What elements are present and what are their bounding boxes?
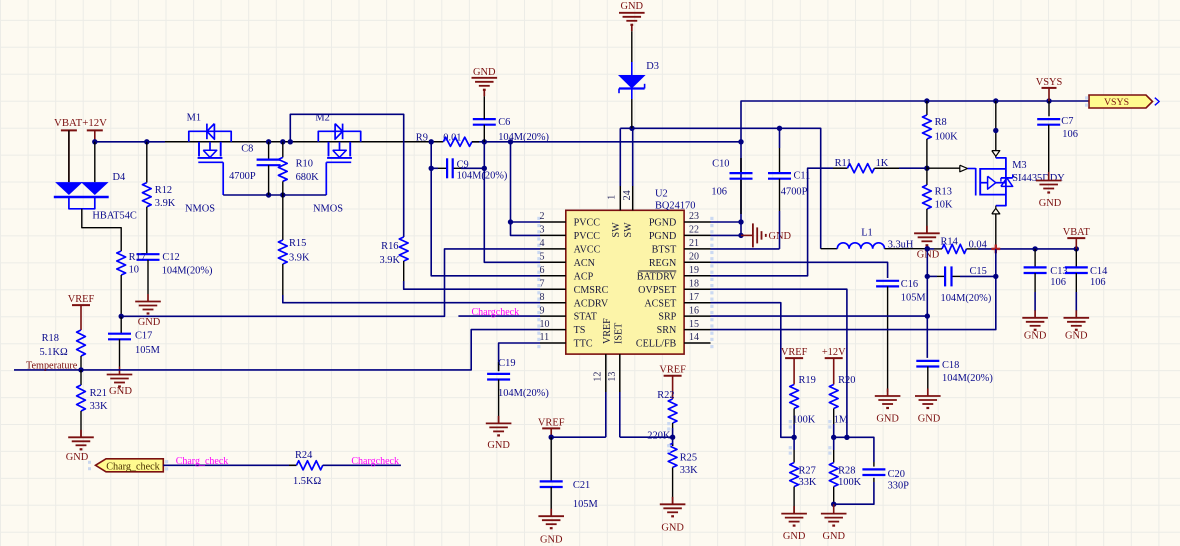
junction VREF / C21: [549, 435, 554, 440]
svg-text:C20: C20: [888, 469, 905, 480]
junction R28 / C20: [831, 502, 836, 507]
svg-text:1: 1: [607, 195, 618, 200]
svg-text:TS: TS: [574, 325, 586, 336]
svg-text:C7: C7: [1061, 116, 1073, 127]
wire ISET pin13 to divider: [620, 436, 673, 438]
capacitor C17: [108, 316, 131, 366]
label R9 0.01: [416, 132, 462, 143]
svg-text:C8: C8: [241, 144, 253, 155]
resistor R15 + wire to ACDRV: [278, 195, 540, 303]
label M3: [1012, 160, 1026, 171]
power +12V (R20): [822, 347, 846, 384]
svg-text:104M(20%): 104M(20%): [942, 373, 993, 384]
transistor M1 NMOS: [189, 124, 231, 195]
svg-text:15: 15: [689, 319, 699, 330]
svg-text:R21: R21: [90, 388, 107, 399]
svg-text:M3: M3: [1012, 160, 1026, 171]
diode D4 HBAT54C: [54, 130, 109, 208]
power VREF (R19): [781, 347, 808, 384]
pin name BTST: [652, 245, 677, 256]
svg-text:NMOS: NMOS: [313, 204, 343, 215]
svg-text:33K: 33K: [680, 465, 698, 476]
pin name TS: [574, 325, 586, 336]
svg-text:R28: R28: [838, 465, 855, 476]
label R20 1M: [834, 375, 856, 426]
junction SW / D3 / pin24: [629, 126, 634, 131]
label R16 3.9K: [380, 241, 401, 266]
svg-text:1.5KΩ: 1.5KΩ: [293, 476, 321, 487]
svg-text:24: 24: [622, 190, 633, 200]
svg-text:GND: GND: [876, 413, 899, 424]
pin name REGN: [649, 258, 677, 269]
svg-text:R25: R25: [680, 452, 697, 463]
svg-text:R17: R17: [129, 252, 146, 263]
svg-text:GND: GND: [540, 535, 563, 546]
svg-text:CELL/FB: CELL/FB: [636, 339, 677, 350]
junction C10 / PGND23: [738, 219, 743, 224]
svg-text:R14: R14: [941, 237, 959, 248]
capacitor C12: [137, 254, 160, 260]
pin 12 VREF: [593, 354, 606, 437]
svg-text:R8: R8: [935, 117, 947, 128]
svg-text:C19: C19: [498, 358, 515, 369]
label R24 1.5Kohm: [293, 450, 321, 487]
port VSYS: [1085, 95, 1159, 108]
resistor R24: [289, 461, 330, 470]
pin 13 ISET: [607, 354, 620, 437]
pin name ACP: [574, 271, 594, 282]
pin name BATDRV: [637, 271, 677, 282]
svg-text:GND: GND: [621, 1, 644, 12]
value HBAT54C: [92, 211, 137, 222]
junction SW / C11: [777, 126, 782, 131]
wire BATDRV to R11: [711, 168, 848, 276]
svg-text:VSYS: VSYS: [1104, 97, 1129, 108]
svg-text:GND: GND: [138, 317, 161, 328]
net label Temperature: [26, 360, 78, 371]
svg-text:100K: 100K: [935, 132, 959, 143]
svg-text:GND: GND: [473, 67, 496, 78]
svg-text:106: 106: [711, 187, 727, 198]
pin 22 PGND: [684, 225, 713, 241]
net label Charg_check: [176, 456, 229, 467]
svg-text:4: 4: [540, 238, 545, 249]
svg-text:GND: GND: [783, 531, 806, 542]
capacitor C9: [447, 158, 453, 178]
pin 10 TS: [537, 319, 566, 335]
resistor R20: [828, 385, 838, 438]
svg-text:GND: GND: [1024, 331, 1047, 342]
wire Temperature net: [14, 330, 540, 370]
pin 20 REGN: [684, 252, 713, 268]
svg-text:TTC: TTC: [574, 339, 593, 350]
svg-text:PVCC: PVCC: [574, 231, 601, 242]
svg-text:R19: R19: [799, 375, 816, 386]
ground above C6: [472, 67, 498, 119]
pin 23 PGND: [684, 211, 713, 227]
label C6 104M(20%): [498, 117, 549, 143]
label R12 3.9K: [155, 185, 176, 209]
resistor R10: [278, 142, 287, 195]
label C21 105M: [573, 480, 598, 510]
svg-text:3.9K: 3.9K: [380, 255, 401, 266]
pin name SRN: [657, 325, 677, 336]
svg-text:Charg_check: Charg_check: [106, 462, 160, 473]
label R13 10K: [935, 186, 953, 210]
svg-text:104M(20%): 104M(20%): [941, 293, 992, 304]
power bar VBAT+12V left stem: [61, 130, 77, 182]
svg-text:U2: U2: [655, 188, 668, 199]
wire rail to R16 (CMSRC): [290, 114, 403, 237]
svg-text:105M: 105M: [135, 345, 160, 356]
capacitor C10: [730, 158, 753, 214]
label R18 5.1Kohm: [39, 333, 67, 358]
resistor R27: [789, 437, 799, 513]
transistor M3 SI4435DDY PMOS: [976, 101, 1013, 249]
junction rail / R12: [144, 139, 149, 144]
inductor L1: [821, 243, 928, 249]
pin 3 PVCC: [537, 225, 566, 241]
wire C6 riser to ACN: [484, 142, 540, 262]
label L1 3.3uH: [861, 227, 914, 250]
junction VSYS / R8: [924, 98, 929, 103]
power VSYS: [1036, 77, 1063, 101]
label R21 33K: [90, 388, 108, 412]
pin 5 ACN: [537, 252, 566, 268]
capacitor C13: [1024, 249, 1047, 311]
wire Chargcheck stub to STAT: [458, 315, 540, 317]
power VREF (C21): [538, 417, 565, 437]
wire VSYS rail y=101: [927, 100, 1089, 102]
wire R24 to Chargcheck stub: [323, 464, 401, 466]
svg-text:C17: C17: [135, 330, 152, 341]
svg-text:VBAT: VBAT: [1063, 227, 1091, 238]
capacitor C15: [945, 266, 951, 286]
pin 8 ACDRV: [537, 292, 566, 308]
pin name PVCC: [574, 231, 601, 242]
pin name ACDRV: [574, 298, 609, 309]
net label VBAT+12V: [54, 117, 107, 129]
wire M3 gate: [927, 165, 976, 172]
pin 2 PVCC: [537, 211, 566, 227]
pin name PVCC: [574, 218, 601, 229]
label R28 100K: [838, 465, 862, 487]
svg-text:VSYS: VSYS: [1036, 77, 1063, 88]
label R19 100K: [792, 375, 816, 426]
svg-text:OVPSET: OVPSET: [638, 285, 676, 296]
ground below R25: [660, 497, 686, 534]
svg-text:SW: SW: [623, 222, 634, 238]
junction R22/R25/ISET: [670, 435, 675, 440]
label C18 104M(20%): [942, 360, 993, 384]
power bar VBAT+12V right stem: [87, 130, 103, 141]
junction rail / R10: [280, 139, 285, 144]
svg-text:R15: R15: [289, 238, 306, 249]
power VBAT: [1063, 227, 1091, 249]
resistor R16 + wire to CMSRC: [399, 237, 540, 289]
wire OVPSET node to C20: [834, 437, 874, 466]
net label Chargcheck (STAT): [472, 307, 520, 318]
wire C9 row: [431, 167, 484, 169]
svg-text:3.3uH: 3.3uH: [888, 240, 914, 251]
svg-text:D3: D3: [646, 61, 659, 72]
svg-text:+12V: +12V: [822, 347, 846, 358]
wire main VBAT rail y=142: [95, 141, 741, 143]
label C15 104M(20%): [941, 266, 992, 304]
svg-text:ACN: ACN: [574, 258, 596, 269]
pin name ACSET: [644, 298, 676, 309]
label C13 106: [1050, 266, 1067, 288]
junction rail / ACN-C9 riser: [429, 139, 434, 144]
svg-text:5.1KΩ: 5.1KΩ: [39, 347, 67, 358]
svg-text:17: 17: [689, 292, 699, 303]
svg-text:3: 3: [540, 225, 545, 236]
label C7 106: [1061, 116, 1078, 140]
svg-text:HBAT54C: HBAT54C: [92, 211, 137, 222]
svg-text:R20: R20: [838, 375, 855, 386]
pin name CELL/FB: [636, 339, 677, 350]
pin name STAT: [574, 312, 597, 323]
svg-text:104M(20%): 104M(20%): [162, 266, 213, 277]
ground below C21: [538, 509, 564, 546]
svg-text:11: 11: [540, 332, 550, 343]
svg-text:C10: C10: [712, 159, 729, 170]
svg-text:C12: C12: [162, 252, 179, 263]
svg-text:10: 10: [129, 264, 139, 275]
label R27 33K: [799, 465, 817, 487]
pin 18 OVPSET: [684, 278, 713, 294]
svg-text:12: 12: [593, 372, 604, 382]
capacitor C8: [257, 142, 281, 195]
svg-text:ACSET: ACSET: [644, 298, 676, 309]
svg-text:R13: R13: [935, 186, 952, 197]
wire M1/M2 gate bus y=195: [223, 194, 326, 196]
junction rail / PVCC riser: [508, 139, 513, 144]
svg-text:106: 106: [1050, 277, 1066, 288]
svg-text:Chargcheck: Chargcheck: [472, 307, 520, 318]
net label Chargcheck right: [351, 456, 399, 467]
svg-text:C21: C21: [573, 480, 590, 491]
svg-text:R9: R9: [416, 132, 428, 143]
pin name OVPSET: [638, 285, 676, 296]
resistor R21: [77, 370, 86, 437]
svg-text:105M: 105M: [573, 499, 598, 510]
svg-text:REGN: REGN: [649, 258, 677, 269]
ground right of pin22: [741, 223, 792, 247]
junction OVPSET: [844, 435, 849, 440]
svg-text:SI4435DDY: SI4435DDY: [1012, 173, 1065, 184]
svg-text:10: 10: [540, 319, 550, 330]
wire C10 riser / VSYS corner: [741, 101, 927, 235]
svg-text:20: 20: [689, 252, 699, 263]
junction R20/R28: [831, 435, 836, 440]
junction VBAT rail / D4: [92, 139, 97, 144]
wire D4 cathode to R17: [82, 209, 121, 251]
svg-text:14: 14: [689, 332, 699, 343]
resistor R14: [942, 244, 966, 253]
wire R14 to VBAT: [927, 248, 1076, 250]
svg-text:SRP: SRP: [658, 312, 676, 323]
ground below C14: [1064, 310, 1090, 341]
svg-text:5: 5: [540, 252, 545, 263]
junction PVCC pin2: [508, 219, 513, 224]
label C17 105M: [135, 330, 160, 356]
svg-text:PGND: PGND: [649, 231, 676, 242]
pin names SW SW: [611, 222, 634, 238]
diode D3: [618, 62, 646, 128]
pin name PGND: [649, 231, 676, 242]
svg-text:104M(20%): 104M(20%): [498, 388, 549, 399]
svg-text:GND: GND: [1039, 198, 1062, 209]
label R10 680K: [296, 159, 320, 183]
capacitor C20: [862, 469, 885, 475]
junction rail / C8: [266, 139, 271, 144]
svg-text:SW: SW: [611, 222, 622, 238]
svg-text:100K: 100K: [838, 477, 862, 488]
ground below C13: [1022, 310, 1048, 341]
svg-text:R22: R22: [657, 390, 674, 401]
svg-text:23: 23: [689, 211, 699, 222]
svg-text:GND: GND: [917, 250, 940, 261]
svg-text:19: 19: [689, 265, 699, 276]
pin name CMSRC: [574, 285, 609, 296]
svg-text:GND: GND: [822, 531, 845, 542]
svg-text:R27: R27: [799, 465, 816, 476]
pin names VREF ISET: [602, 318, 624, 344]
ground below C7: [1036, 172, 1062, 209]
junction R18/R21/Temperature: [78, 367, 83, 372]
svg-text:8: 8: [540, 292, 545, 303]
capacitor C14: [1065, 249, 1088, 311]
label C11 4700P: [781, 171, 811, 198]
ground below C17: [107, 367, 133, 387]
junction R19/R27/ACSET: [791, 435, 796, 440]
capacitor C6: [473, 119, 496, 142]
svg-text:CMSRC: CMSRC: [574, 285, 609, 296]
pin 1 SW: [607, 128, 621, 210]
junction R10 bottom / R15 top: [280, 192, 285, 197]
svg-text:16: 16: [689, 305, 699, 316]
svg-text:330P: 330P: [888, 481, 910, 492]
label R11 1K: [835, 158, 889, 169]
svg-text:STAT: STAT: [574, 312, 597, 323]
svg-text:C6: C6: [498, 117, 510, 128]
pin 14 CELL/FB: [684, 332, 713, 348]
pin 4 AVCC: [537, 238, 566, 254]
svg-text:220K: 220K: [647, 431, 671, 442]
wire TTC to C19: [499, 343, 540, 371]
label C10 106: [711, 159, 729, 198]
value SI4435DDY: [1012, 173, 1065, 184]
svg-text:C15: C15: [970, 266, 987, 277]
resistor R22: [667, 399, 677, 437]
ground below R13: [914, 226, 940, 261]
svg-text:BATDRV: BATDRV: [637, 271, 677, 282]
svg-text:106: 106: [1090, 277, 1106, 288]
resistor R18: [77, 330, 86, 370]
svg-text:13: 13: [607, 372, 618, 382]
svg-text:Temperature: Temperature: [26, 360, 78, 371]
svg-text:18: 18: [689, 278, 699, 289]
ground below R28: [821, 504, 847, 542]
pin 15 SRN: [684, 319, 713, 335]
IC U2 BQ24170: [566, 210, 684, 354]
resistor R17: [117, 251, 126, 316]
junction R17 / AVCC wire: [119, 314, 124, 319]
pin name ACN: [574, 258, 596, 269]
resistor R12: [142, 142, 151, 254]
resistor R19: [789, 385, 799, 438]
power VREF (R18): [68, 294, 95, 330]
junction C14 / VBAT: [1074, 246, 1079, 251]
svg-text:BQ24170: BQ24170: [655, 200, 695, 211]
svg-text:GND: GND: [487, 440, 510, 451]
capacitor C21: [540, 437, 563, 516]
label R22 220K: [647, 390, 674, 442]
junction SRP wire: [925, 313, 930, 318]
label R8 100K: [935, 117, 959, 142]
pin 6 ACP: [537, 265, 566, 281]
label C16 105M: [901, 279, 926, 303]
svg-text:Charg_check: Charg_check: [176, 456, 229, 467]
svg-text:VREF: VREF: [602, 318, 613, 344]
wire AVCC net (R17 to pin4): [121, 249, 540, 316]
svg-text:680K: 680K: [296, 172, 320, 183]
junction rail / CMSRC riser: [288, 139, 293, 144]
wire R11 to M3 gate junction: [874, 167, 927, 169]
label C8 4700P: [229, 144, 256, 182]
svg-text:10K: 10K: [935, 200, 953, 211]
svg-text:VREF: VREF: [68, 294, 95, 305]
ground above D3: [619, 1, 645, 62]
svg-text:C14: C14: [1090, 266, 1108, 277]
wire C20 bottom to R28: [834, 478, 874, 504]
svg-text:R18: R18: [42, 333, 59, 344]
capacitor C18: [916, 361, 939, 392]
junction R8/R13/M3 gate: [924, 166, 929, 171]
svg-text:4700P: 4700P: [781, 187, 808, 198]
pin 24 SW: [622, 128, 633, 210]
port Charg_check: [88, 459, 168, 473]
capacitor C16: [876, 281, 899, 392]
pin 17 ACSET: [684, 292, 713, 308]
wire SRN riser: [711, 249, 996, 330]
label D3: [646, 61, 659, 72]
svg-text:ACP: ACP: [574, 271, 594, 282]
svg-text:104M(20%): 104M(20%): [457, 171, 508, 182]
capacitor C7: [1037, 101, 1060, 172]
junction VSYS / C7: [1046, 98, 1051, 103]
label C19 104M(20%): [498, 358, 549, 399]
value NMOS M1: [185, 204, 215, 215]
svg-text:C16: C16: [901, 279, 918, 290]
junction L1 / R14 / SRP riser: [925, 246, 930, 251]
label C20 330P: [888, 469, 910, 492]
svg-text:R10: R10: [296, 159, 313, 170]
pin name SRP: [658, 312, 676, 323]
svg-text:1M: 1M: [834, 414, 848, 425]
label M1: [187, 112, 201, 123]
junction M3 drain pin: [993, 128, 998, 133]
junction PGND22 wire: [738, 233, 743, 238]
junction C15 right: [993, 274, 998, 279]
label R14 0.04: [941, 237, 988, 251]
pin name AVCC: [574, 245, 601, 256]
svg-text:VREF: VREF: [781, 347, 808, 358]
wire SRP riser: [926, 249, 928, 358]
svg-text:AVCC: AVCC: [574, 245, 601, 256]
svg-text:105M: 105M: [901, 292, 926, 303]
